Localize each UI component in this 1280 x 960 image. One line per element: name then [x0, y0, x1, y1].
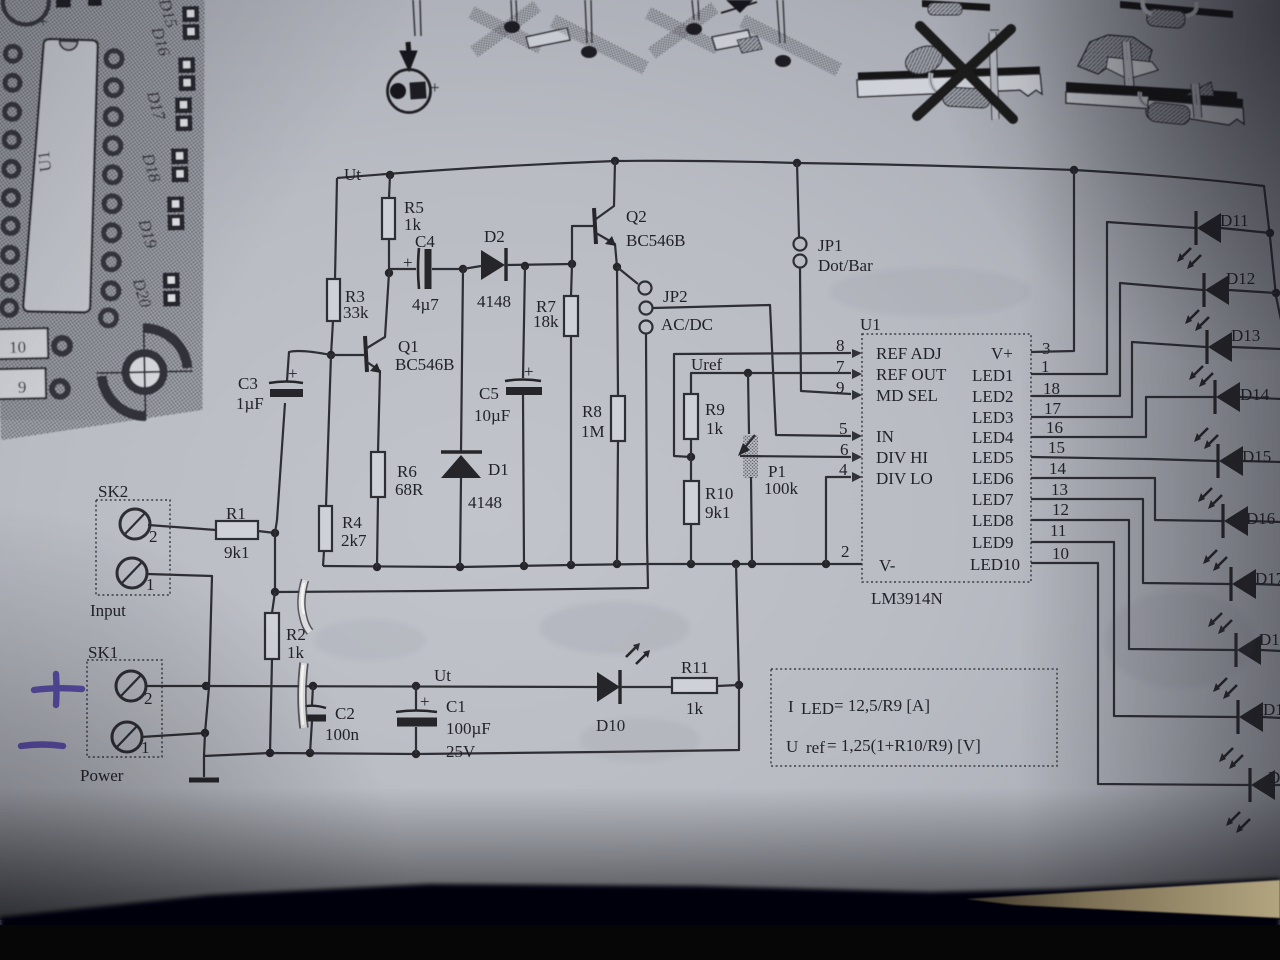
wire: V- bottom bus — [323, 564, 862, 567]
pad next to box 10 — [54, 338, 70, 354]
resistor R11 (horizontal) — [672, 678, 717, 693]
hand-drawn minus mark — [21, 745, 63, 747]
svg-text:Uref: Uref — [691, 355, 722, 374]
connector SK2 dotted outline — [96, 500, 170, 595]
svg-text:100k: 100k — [764, 479, 799, 498]
svg-text:R9: R9 — [705, 400, 725, 419]
left pad column — [0, 46, 26, 315]
svg-text:U: U — [786, 737, 798, 756]
transistor Q1 — [331, 354, 364, 356]
LED D15 — [1198, 444, 1280, 509]
wire: C5 bottom to bus — [523, 395, 524, 566]
svg-text:= 1,25(1+R10/R9) [V]: = 1,25(1+R10/R9) [V] — [827, 736, 981, 755]
node: Uref tap — [744, 369, 752, 377]
node: JP1 junction — [793, 159, 801, 167]
svg-text:6: 6 — [840, 440, 849, 459]
wire: SK1.1 to ground node — [141, 733, 205, 737]
capacitor C1 (electrolytic) — [415, 686, 417, 710]
node: divider/JP2-wire node — [271, 588, 279, 596]
D16 pad pair — [178, 57, 195, 73]
potentiometer P1 — [748, 373, 749, 434]
svg-text:DIV HI: DIV HI — [876, 448, 928, 467]
node: D1 at bus — [456, 563, 464, 571]
light arrows of D11 — [1179, 248, 1201, 267]
svg-text:= 12,5/R9 [A]: = 12,5/R9 [A] — [834, 696, 930, 715]
resistor R6 — [371, 452, 385, 497]
svg-text:R6: R6 — [397, 462, 417, 481]
pad next to box 9 — [52, 381, 68, 397]
svg-text:MD SEL: MD SEL — [876, 386, 938, 405]
LED D13 — [1189, 326, 1280, 387]
LED D16 — [1203, 504, 1280, 571]
wire: pin 16 to D14 — [1031, 397, 1214, 437]
svg-text:DIV LO: DIV LO — [876, 469, 933, 488]
wire: R6 bottom to bus — [377, 497, 378, 567]
svg-text:2: 2 — [841, 542, 850, 561]
svg-text:Dot/Bar: Dot/Bar — [818, 256, 873, 275]
node: Q2 collector junction — [611, 157, 619, 165]
svg-text:LM3914N: LM3914N — [871, 589, 943, 608]
wire: R2 bottom to ground bus — [270, 659, 272, 753]
svg-text:1M: 1M — [581, 422, 605, 441]
node: C5 at bus — [520, 562, 528, 570]
wire: left rail from Ut corner down to R3 — [335, 178, 337, 279]
svg-text:SK2: SK2 — [98, 482, 128, 501]
svg-text:8: 8 — [836, 336, 845, 355]
node: C4/D2/D1 junction — [459, 265, 467, 273]
wire: SK1.2 to Ut rail — [145, 685, 206, 687]
big X cross — [920, 26, 1013, 119]
wire: pin 15 to D15 — [1031, 457, 1217, 461]
capacitor C5 (electrolytic) — [523, 266, 525, 378]
wire: Ut rail to D10 — [206, 686, 597, 687]
LED D14 — [1194, 380, 1280, 449]
wire: R3 bottom to Q1 base node — [331, 321, 333, 355]
svg-text:1k: 1k — [706, 419, 724, 438]
svg-text:U1: U1 — [860, 315, 881, 334]
LED D18 — [1213, 630, 1280, 699]
node: R10 at bus — [687, 560, 695, 568]
resistor R3 — [327, 279, 340, 321]
wire: P1 wiper to DIV HI (pin 6) — [740, 456, 851, 457]
svg-text:ref: ref — [806, 738, 825, 757]
black photo background below page bottom edge — [0, 878, 1280, 960]
wire: R5 bottom to C4 node — [388, 239, 390, 273]
node: C1 top junction — [412, 682, 420, 690]
IC notch — [60, 40, 78, 50]
light arrows of D20 — [1228, 812, 1250, 831]
svg-text:R11: R11 — [681, 658, 709, 677]
wire: R4 bottom to V- bus corner — [323, 551, 324, 566]
fig: cutting leads with side cutter — [1066, 35, 1238, 123]
fig: lead needle with down arrow — [413, 0, 421, 36]
U1 pin numbers (right) — [1041, 339, 1069, 563]
resistor R10 — [684, 481, 699, 524]
connector SK1 dotted outline — [87, 660, 162, 757]
wire: pin 18 to D12 — [1031, 283, 1203, 396]
light arrows of D12 — [1187, 310, 1209, 329]
IC U1 LM3914N — [862, 334, 1031, 582]
vignette overlays (photo lighting) — [0, 0, 540, 420]
node: R7 at bus — [567, 561, 575, 569]
svg-text:9k1: 9k1 — [705, 503, 731, 522]
LED D11 — [1177, 211, 1270, 269]
SK1 terminal 2 — [116, 671, 146, 701]
U1 pin arrows (left edge) — [852, 349, 862, 482]
faint print bleed-through smudges — [315, 268, 1255, 762]
wire: pin 17 to D13 — [1031, 342, 1206, 417]
svg-text:Q2: Q2 — [626, 207, 647, 226]
node: divider node A — [271, 529, 279, 537]
svg-text:R8: R8 — [582, 402, 602, 421]
node: R8 at bus — [613, 560, 621, 568]
fig: cropped strip at very top right — [922, 0, 1233, 29]
LED D12 — [1185, 269, 1276, 331]
node: P1 at bus — [748, 560, 756, 568]
staple 2 (shiny) — [302, 663, 305, 728]
D17 pad pair — [175, 97, 192, 113]
fig: wrong-mounting (crossed out) — [857, 26, 1042, 120]
node: R7/Q2 base branch — [568, 260, 576, 268]
wire: pin 11 to D19 — [1031, 542, 1237, 717]
fig: cropped diode symbol at top — [726, 0, 753, 13]
wire: top supply bus Ut — [337, 161, 1280, 320]
wire: R9 bottom to R10 top — [690, 439, 692, 481]
fig: resistor footprint top-view B — [645, 0, 842, 76]
node: C5 branch — [521, 262, 529, 270]
wire: pin 1 to D11 — [1031, 222, 1195, 374]
D15 pad pair — [157, 6, 205, 307]
LED D10 — [597, 672, 620, 702]
wire: divider node down to JP2 wire node — [274, 533, 276, 592]
svg-text:BC546B: BC546B — [626, 231, 686, 250]
node: C2 at ground bus — [306, 749, 314, 757]
wire: SK2.1 down across to SK1.1 node — [147, 574, 212, 733]
node: C2 top junction — [309, 682, 317, 690]
resistor R8 — [611, 396, 625, 441]
svg-text:REF OUT: REF OUT — [876, 365, 947, 384]
staple 1 (shiny) — [301, 580, 310, 632]
node: R6 at bus — [373, 563, 381, 571]
light arrows of D17 — [1210, 613, 1232, 632]
resistor R5 — [389, 175, 390, 198]
resistor R4 — [319, 506, 332, 551]
wire: D2 cathode to C5/R7 nodes — [506, 264, 572, 265]
resistor R2 — [272, 592, 275, 613]
silk label box 9 — [0, 368, 46, 399]
wire: pin 12 to D18 — [1031, 520, 1235, 650]
light arrows of D10 — [626, 645, 648, 664]
svg-text:JP2: JP2 — [663, 287, 688, 306]
wire: JP2 middle pin to IN (pin 5) — [653, 305, 851, 436]
light arrows of D15 — [1200, 488, 1222, 507]
node: SK1.2 wire junction — [202, 682, 210, 690]
svg-text:D1: D1 — [488, 460, 509, 479]
PCB layout block (top-left, halftone print) — [0, 0, 214, 440]
light arrows of D16 — [1205, 550, 1227, 569]
light arrows of D14 — [1196, 428, 1218, 447]
wire: JP1 to MD SEL (pin 9) — [800, 268, 851, 394]
wire: D10 cathode to R11 — [620, 686, 672, 688]
wire: C3 bottom to divider node — [275, 403, 285, 533]
wire: JP2 bottom pin down and left to divider node — [275, 334, 648, 592]
capacitor C3 (electrolytic) — [287, 351, 331, 381]
node: SK1.1/SK2.1 junction — [201, 729, 209, 737]
svg-text:68R: 68R — [395, 480, 424, 499]
fig: polarity circle symbol — [388, 70, 431, 113]
capacitor C2 — [312, 686, 313, 705]
diode D1 (vertical) — [461, 269, 463, 452]
node: Q1 base node — [327, 351, 335, 359]
svg-text:JP1: JP1 — [818, 236, 843, 255]
node: R11 riser at bus — [732, 560, 740, 568]
wire: SK2.2 to R1 — [148, 525, 216, 530]
resistor R9 — [684, 394, 698, 439]
svg-text:AC/DC: AC/DC — [661, 315, 713, 334]
node: R5/C4/Q1 collector junction — [385, 269, 393, 277]
wire: R10 bottom to bus — [690, 524, 692, 564]
wire: R1 to divider node — [258, 531, 275, 533]
light arrows of D18 — [1215, 678, 1237, 697]
desk/table tan wedge at bottom right — [966, 880, 1280, 918]
node: emitter/JP2 junction — [613, 263, 621, 271]
right pad column — [95, 51, 128, 327]
svg-text:9: 9 — [836, 378, 845, 397]
wire: Q2 emitter down to R8 — [617, 267, 618, 396]
formulas box — [771, 669, 1057, 766]
wire: pin 3 V+ riser — [1031, 170, 1074, 352]
IC U1 body on PCB — [18, 38, 104, 314]
wire: to JP2 top pin — [617, 267, 638, 284]
silk label box 10 — [0, 328, 48, 359]
node: pin4 wire at bus — [822, 560, 830, 568]
hand-drawn plus mark — [34, 674, 82, 705]
svg-text:1k: 1k — [686, 699, 704, 718]
svg-text:I: I — [788, 697, 794, 716]
svg-text:7: 7 — [836, 357, 845, 376]
wire: C4 to D2 node — [432, 268, 463, 270]
svg-text:R10: R10 — [705, 484, 733, 503]
wire: pin 10 to D20 — [1031, 563, 1249, 785]
fiducial target pad — [125, 353, 164, 392]
wire: R7 bottom to bus — [570, 336, 572, 565]
fig: second strip lower right — [1147, 82, 1244, 125]
jumper JP1 (Dot/Bar) — [797, 163, 799, 237]
LED D20 — [1226, 768, 1280, 833]
node: R11 junction — [735, 681, 743, 689]
svg-text:V-: V- — [879, 556, 896, 575]
node: R5 top junction — [386, 171, 394, 179]
partial big pad at very top — [2, 0, 49, 25]
LED D17 — [1208, 567, 1280, 634]
wire: base node down to R4 — [326, 355, 331, 506]
node: C1 at ground bus — [412, 750, 420, 758]
diode D2 — [463, 266, 481, 269]
svg-text:LED: LED — [801, 699, 834, 718]
SK1 terminal 1 — [112, 722, 142, 752]
fig: resistor footprint top-view A — [468, 0, 648, 74]
node: D12 anode junction — [1272, 289, 1280, 297]
node: V+ riser junction — [1070, 166, 1078, 174]
LED D19 — [1219, 700, 1280, 769]
D20 pad pair — [163, 272, 180, 288]
light arrows of D13 — [1191, 366, 1213, 385]
node: R9/R10 junction — [687, 453, 695, 461]
SK2 terminal 1 — [117, 558, 147, 588]
D18 pad pair — [171, 148, 188, 164]
wire: R11 to riser — [717, 685, 739, 686]
wire: ground corner and bottom return bus — [204, 564, 739, 756]
wire: pin 7 REF OUT / Uref — [691, 373, 851, 394]
node: R2 at ground bus — [266, 749, 274, 757]
U1 pin numbers (left) — [836, 336, 850, 561]
transistor Q2 — [572, 226, 593, 264]
wire: pin 8 REF ADJ to R9/R10 junction — [674, 353, 851, 457]
svg-text:IN: IN — [876, 427, 894, 446]
wire: pin 4 DIV LO to bus — [826, 477, 851, 564]
light arrows of D19 — [1221, 748, 1243, 767]
wire: pin 13 to D17 — [1031, 499, 1230, 584]
resistor R1 (horizontal) — [216, 521, 258, 539]
svg-text:5: 5 — [839, 419, 848, 438]
jumper JP2 (AC/DC) — [639, 282, 652, 295]
capacitor C4 (electrolytic, horizontal) — [389, 269, 416, 273]
svg-text:4: 4 — [839, 460, 848, 479]
SK2 terminal 2 — [120, 509, 150, 539]
D19 pad pair — [167, 196, 184, 212]
wire: R8 bottom to bus — [617, 441, 618, 565]
node: D11 anode junction — [1266, 229, 1274, 237]
silk labels D15-D20 (rotated) — [123, 0, 188, 310]
wire: pin 14 to D16 — [1031, 478, 1222, 521]
ground symbol — [203, 756, 205, 777]
top assembly-instruction illustrations — [388, 0, 1245, 125]
resistor R7 — [571, 264, 572, 296]
